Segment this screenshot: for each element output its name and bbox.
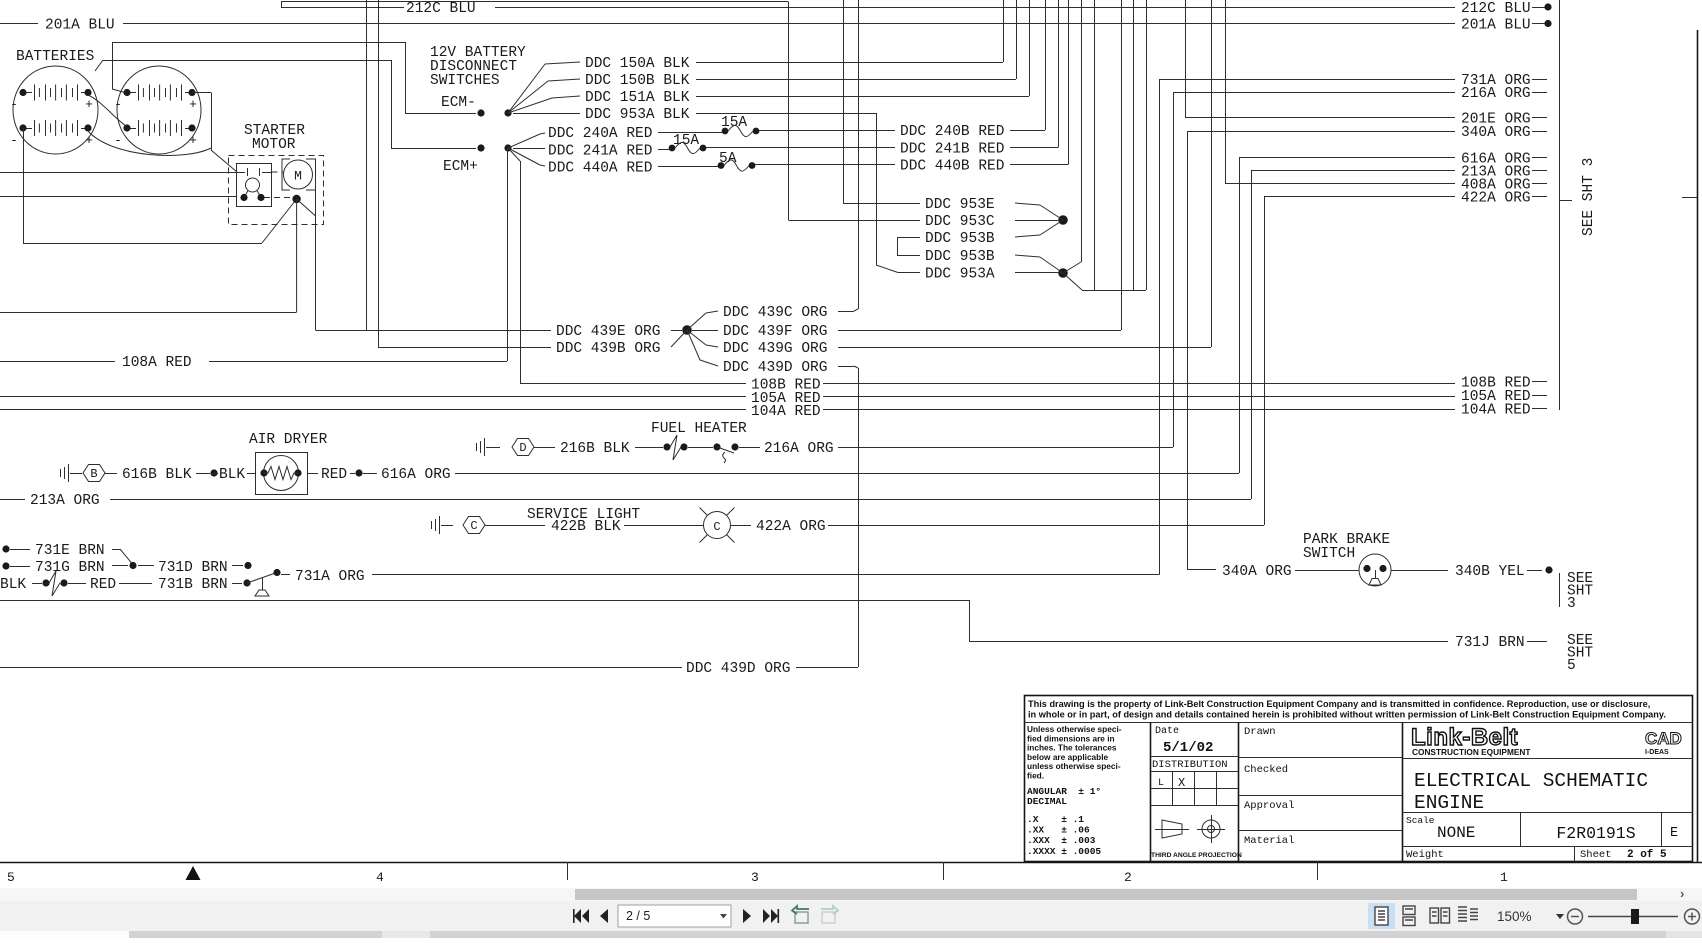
title block weight row — [1402, 846, 1693, 848]
wire 216B to breaker — [635, 447, 663, 449]
wire 422A feed — [1264, 196, 1440, 198]
wire DDC 439D ORG bottom run — [0, 667, 682, 669]
wire 731A feed — [1159, 79, 1440, 81]
wire 201A BLU run — [0, 23, 38, 25]
svg-text:BLK: BLK — [219, 467, 245, 483]
air dryer heater element zigzag — [264, 467, 298, 480]
solenoid dashed link to motor — [272, 171, 285, 173]
svg-text:RED: RED — [90, 577, 116, 593]
svg-text:X: X — [1178, 776, 1185, 790]
svg-text:Weight: Weight — [1406, 849, 1444, 861]
svg-text:+: + — [85, 97, 93, 112]
svg-text:DDC 953A BLK: DDC 953A BLK — [585, 107, 690, 123]
wire DDC 439C up bus x858 — [838, 311, 854, 313]
label 616A ORG right — [1440, 157, 1455, 159]
svg-text:213A ORG: 213A ORG — [30, 493, 100, 509]
node ECM+ junction dots — [477, 144, 484, 151]
label 422A ORG right — [1440, 196, 1455, 198]
svg-text:ECM-: ECM- — [441, 95, 476, 111]
label 212C BLU right with terminal dot — [1532, 7, 1545, 9]
svg-text:616B BLK: 616B BLK — [122, 467, 192, 483]
node 731 junction dot — [129, 562, 136, 569]
svg-text:150%: 150% — [1497, 909, 1532, 924]
wire BLK to air dryer — [247, 473, 256, 475]
wire DDC 150B BLK run — [696, 79, 1016, 81]
wire ECM+ mid to DDC 241A — [513, 148, 545, 150]
wire 731B stub — [232, 583, 242, 585]
svg-text:201A BLU: 201A BLU — [1461, 18, 1531, 34]
wire junction2 lower branch — [1063, 273, 1082, 290]
title block disclaimer box — [1024, 722, 1693, 724]
svg-text:4: 4 — [376, 870, 384, 885]
title block title text — [1402, 758, 1693, 760]
connector hexagon C — [463, 517, 485, 534]
wire 731D stub with dot — [232, 565, 243, 567]
wire 616A ORG run right — [363, 473, 377, 475]
wire 731J BRN run — [0, 600, 969, 602]
battery B2 cell bottom — [127, 128, 136, 130]
svg-text:731D BRN: 731D BRN — [158, 560, 228, 576]
wire 731A ORG long run — [372, 574, 1160, 576]
label 731A ORG right — [1440, 79, 1455, 81]
wire 616B to splice — [196, 473, 210, 475]
svg-text:422A ORG: 422A ORG — [756, 519, 826, 535]
svg-text:340A ORG: 340A ORG — [1461, 125, 1531, 141]
label 201A BLU right with terminal dot — [1532, 23, 1545, 25]
motor bracket left — [282, 159, 290, 190]
svg-text:.XX ± .06: .XX ± .06 — [1027, 825, 1090, 836]
wire ECM+ down to 108B RED — [508, 148, 520, 161]
wire run y312 to left edge — [0, 312, 297, 314]
wire switch to 216A — [739, 447, 760, 449]
zone tick marks — [567, 862, 569, 880]
svg-text:ENGINE: ENGINE — [1414, 792, 1484, 814]
svg-text:.XXXX ± .0005: .XXXX ± .0005 — [1027, 846, 1101, 857]
svg-text:5/1/02: 5/1/02 — [1163, 740, 1213, 756]
svg-text:731B BRN: 731B BRN — [158, 577, 228, 593]
svg-text:422A ORG: 422A ORG — [1461, 191, 1531, 207]
wire ECM+ feed — [391, 60, 393, 148]
wire junction2 up bus x1081 — [1063, 262, 1081, 273]
breaker element fuel heater — [670, 435, 681, 460]
svg-text:340A ORG: 340A ORG — [1222, 564, 1292, 580]
svg-text:2 of 5: 2 of 5 — [1627, 849, 1667, 861]
motor terminal dot — [292, 195, 300, 203]
svg-text:DDC 439B ORG: DDC 439B ORG — [556, 341, 660, 357]
wire 340A feed bus — [1187, 131, 1440, 133]
wire 731G stub — [10, 566, 30, 568]
svg-text:E: E — [1670, 826, 1678, 841]
wire 213A ORG run — [0, 499, 25, 501]
solenoid contact gap — [236, 172, 245, 174]
label 201E ORG right — [1440, 117, 1455, 119]
third angle projection symbol — [1162, 820, 1182, 838]
svg-text:DDC 439E ORG: DDC 439E ORG — [556, 324, 660, 340]
wire 616A ORG bus up — [1239, 158, 1241, 473]
svg-text:212C BLU: 212C BLU — [406, 1, 476, 17]
wire 731A ORG bus up — [1159, 79, 1161, 575]
svg-text:-: - — [10, 97, 18, 112]
title block outer box — [1025, 696, 1693, 862]
wire DDC 151A BLK run — [696, 96, 1029, 98]
wire 104A RED full run — [0, 409, 746, 411]
wire 201E feed bus — [1185, 0, 1187, 118]
svg-text:731E BRN: 731E BRN — [35, 543, 105, 559]
border bottom edge — [0, 862, 1702, 864]
wire 731G to junction — [112, 565, 128, 567]
wire DDC 953A BLK run to DDC 953A — [696, 113, 876, 115]
wire battery negative loop to starter motor — [23, 128, 25, 243]
wire solenoid feeds from left edge — [0, 172, 236, 174]
wire motor terminal down-left — [296, 199, 298, 312]
svg-text:5: 5 — [7, 870, 15, 885]
svg-text:I-DEAS: I-DEAS — [1645, 749, 1669, 756]
svg-text:DDC 953A: DDC 953A — [925, 267, 995, 283]
svg-text:2 / 5: 2 / 5 — [626, 909, 650, 923]
svg-text:DDC 241A RED: DDC 241A RED — [548, 144, 652, 160]
wire battery feed to ECM- run — [112, 42, 405, 44]
wire ECM- feed — [405, 42, 407, 113]
svg-text:DDC 241B RED: DDC 241B RED — [900, 142, 1004, 158]
svg-text:.X ± .1: .X ± .1 — [1027, 814, 1084, 825]
svg-text:DDC 439F ORG: DDC 439F ORG — [723, 324, 827, 340]
wire 731E diagonal — [112, 549, 120, 551]
svg-text:DISTRIBUTION: DISTRIBUTION — [1152, 759, 1228, 771]
node 731G terminal dot — [2, 562, 9, 569]
wire battery bottom loop to junction — [88, 131, 211, 155]
battery bank 1 enclosure ellipse — [13, 66, 98, 154]
wire DDC 150A BLK run — [696, 62, 1003, 64]
svg-text:3: 3 — [751, 870, 759, 885]
svg-text:616A ORG: 616A ORG — [381, 467, 451, 483]
title block scale row — [1402, 812, 1693, 814]
switch fuel heater — [717, 447, 734, 453]
svg-text:THIRD ANGLE PROJECTION: THIRD ANGLE PROJECTION — [1151, 852, 1242, 859]
svg-text:731A ORG: 731A ORG — [295, 569, 365, 585]
svg-text:DDC 953E: DDC 953E — [925, 197, 995, 213]
svg-text:Drawn: Drawn — [1244, 726, 1276, 738]
border tick right edge — [1682, 197, 1697, 199]
border sheet-3 bracket line — [1559, 0, 1561, 410]
wire 422A ORG bus up — [1264, 196, 1266, 525]
svg-text:731G BRN: 731G BRN — [35, 560, 105, 576]
wire ECM- fan to DDC 150B — [508, 81, 548, 113]
wire ECM+ fan to DDC 440A — [508, 148, 540, 165]
svg-text:-: - — [114, 97, 122, 112]
svg-text:in whole or in part, of design: in whole or in part, of design and detai… — [1028, 710, 1666, 720]
svg-text:ECM+: ECM+ — [443, 159, 478, 175]
wire bus x378 from top to DDC 439B — [378, 0, 380, 347]
svg-text:5: 5 — [1567, 658, 1576, 674]
svg-text:DDC 439D ORG: DDC 439D ORG — [686, 661, 790, 677]
wire 408A feed bus — [1225, 0, 1227, 184]
switch 731 park brake lamp switch — [247, 574, 274, 584]
motor bracket right — [306, 159, 316, 190]
battery B2 cell top — [127, 92, 136, 94]
svg-text:MOTOR: MOTOR — [252, 137, 296, 153]
wire bus x843 from top to DDC 953E — [843, 0, 845, 203]
svg-text:340B YEL: 340B YEL — [1455, 564, 1525, 580]
connector hexagon D — [512, 439, 534, 456]
breaker element 731 row — [49, 571, 60, 596]
svg-text:DDC 953B: DDC 953B — [925, 231, 995, 247]
lamp service light — [704, 512, 731, 539]
wire ECM- to DDC 953A BLK — [513, 113, 580, 115]
wire junction2 fan bus x1094 — [1094, 0, 1096, 290]
wire breaker to switch — [688, 447, 713, 449]
label 408A ORG right — [1440, 183, 1455, 185]
wire 340A to switch — [1295, 570, 1359, 572]
wire BLK stub — [32, 583, 42, 585]
label 340A ORG right — [1440, 131, 1455, 133]
wire 731E stub — [10, 549, 30, 551]
svg-text:AIR DRYER: AIR DRYER — [249, 432, 328, 448]
svg-text:This drawing is the property o: This drawing is the property of Link-Bel… — [1028, 699, 1650, 709]
wire bus x1146 — [1146, 0, 1148, 290]
wire 213A feed — [1251, 170, 1440, 172]
svg-text:DDC 240B RED: DDC 240B RED — [900, 124, 1004, 140]
svg-text:216B BLK: 216B BLK — [560, 441, 630, 457]
svg-text:3: 3 — [1567, 596, 1576, 612]
svg-text:DDC 440A RED: DDC 440A RED — [548, 161, 652, 177]
wire junction to 731D — [138, 565, 154, 567]
wire battery B2 to starter — [192, 92, 211, 94]
node ECM- junction dots — [477, 109, 484, 116]
starter motor dashed enclosure — [229, 156, 324, 225]
svg-text:-: - — [10, 133, 18, 148]
svg-text:212C BLU: 212C BLU — [1461, 1, 1531, 17]
svg-text:BLK: BLK — [0, 577, 26, 593]
connector hexagon B — [83, 465, 105, 482]
wire ECM+ down to 108A RED — [507, 148, 509, 361]
svg-text:C: C — [713, 520, 720, 534]
wire DDC 241B RED run — [706, 147, 895, 149]
svg-text:DDC 439D ORG: DDC 439D ORG — [723, 360, 827, 376]
svg-text:216A ORG: 216A ORG — [764, 441, 834, 457]
svg-text:DDC 953B: DDC 953B — [925, 249, 995, 265]
svg-text:L: L — [1158, 778, 1164, 789]
ground symbol fuel heater — [476, 443, 478, 451]
svg-text:SWITCH: SWITCH — [1303, 546, 1355, 562]
wire breaker to RED — [68, 583, 86, 585]
wire 212C BLU feed from top edge — [281, 1, 788, 3]
svg-text:SEE SHT 3: SEE SHT 3 — [1581, 158, 1597, 236]
wire bus x788 from top to DDC 953C — [788, 2, 790, 221]
svg-text:C: C — [470, 519, 477, 533]
node junction DDC 953 E/C/B — [1058, 215, 1068, 225]
wire lamp to 422A — [731, 525, 751, 527]
svg-text:M: M — [294, 169, 302, 184]
wire 340B terminal — [1527, 570, 1542, 572]
wire fan to DDC 439G — [687, 330, 706, 345]
svg-text:fied.: fied. — [1027, 771, 1044, 781]
svg-text:DDC 440B RED: DDC 440B RED — [900, 159, 1004, 175]
wire ECM- fan to DDC 150A — [508, 64, 545, 113]
svg-text:104A RED: 104A RED — [751, 404, 821, 420]
wire motor terminal to DDC 439E run — [297, 199, 316, 216]
ground symbol service light — [431, 521, 433, 529]
wire DDC 439F run right — [838, 330, 1121, 332]
wire 216A ORG run right — [838, 447, 1173, 449]
wire 216A feed — [1173, 92, 1440, 94]
svg-text:422B BLK: 422B BLK — [551, 519, 621, 535]
wire DDC 439D down bus x858 — [838, 366, 854, 368]
wire 340A to park brake — [1187, 569, 1216, 571]
svg-text:Checked: Checked — [1244, 764, 1288, 776]
svg-text:DDC 240A RED: DDC 240A RED — [548, 126, 652, 142]
ground symbol air dryer — [60, 469, 62, 477]
svg-text:Scale: Scale — [1406, 815, 1435, 826]
wire fan to DDC 439C — [687, 313, 706, 330]
svg-text:201A BLU: 201A BLU — [45, 18, 115, 34]
svg-text:DDC 150B BLK: DDC 150B BLK — [585, 73, 690, 89]
node junction DDC 439 fan — [682, 325, 692, 335]
svg-text:-: - — [114, 133, 122, 148]
border right edge — [1697, 30, 1699, 862]
svg-text:BATTERIES: BATTERIES — [16, 49, 94, 65]
wire fan to DDC 439D — [687, 330, 700, 360]
battery B1 cell top — [23, 92, 32, 94]
wire fan to DDC 439F — [692, 330, 718, 332]
wire battery feed to ECM+ run — [103, 60, 391, 62]
wire 105A RED full run — [0, 396, 746, 398]
air dryer heater circle — [264, 456, 299, 491]
air dryer heater box — [256, 453, 308, 495]
svg-text:Date: Date — [1155, 726, 1179, 737]
wire DDC 439D bottom stub — [796, 667, 858, 669]
svg-text:B: B — [90, 467, 97, 481]
wire DDC 440B RED run — [755, 164, 895, 166]
wire 213A ORG bus up — [1251, 171, 1253, 499]
solenoid contact legs and dots — [244, 191, 248, 198]
zone revision triangle — [186, 866, 201, 880]
wire switch to 731A — [281, 574, 290, 576]
svg-text:.XXX ± .003: .XXX ± .003 — [1027, 835, 1096, 846]
wire bus x1133 — [1133, 0, 1135, 290]
svg-text:1: 1 — [1500, 870, 1508, 885]
park brake switch circle — [1359, 554, 1391, 586]
svg-text:D: D — [519, 441, 526, 455]
svg-text:2: 2 — [1124, 870, 1132, 885]
wire DDC 240B RED run — [759, 130, 895, 132]
starter solenoid box — [237, 164, 272, 207]
svg-text:CAD: CAD — [1645, 729, 1682, 748]
wire 108B RED run — [520, 383, 746, 385]
wire run y330 to DDC 439E — [316, 330, 552, 332]
svg-text:DDC 953C: DDC 953C — [925, 214, 995, 230]
svg-text:Material: Material — [1244, 835, 1294, 847]
svg-text:+: + — [189, 97, 197, 112]
wire ECM- fan to DDC 151A — [508, 98, 552, 113]
svg-text:SWITCHES: SWITCHES — [430, 73, 500, 89]
bracket joining DDC 953B pair — [897, 237, 920, 239]
wire 616A feed — [1239, 157, 1440, 159]
svg-text:104A RED: 104A RED — [1461, 403, 1531, 419]
starter motor M circle — [284, 160, 313, 189]
label 216A ORG right — [1440, 92, 1455, 94]
label 213A ORG right — [1440, 170, 1455, 172]
title block column dividers — [1150, 722, 1152, 862]
svg-text:ELECTRICAL SCHEMATIC: ELECTRICAL SCHEMATIC — [1414, 770, 1648, 792]
wire 212C BLU run — [281, 7, 404, 9]
wire 422A ORG run right — [828, 525, 1264, 527]
wire ECM+ fan to DDC 240A — [508, 134, 540, 148]
battery bank 2 enclosure ellipse — [117, 66, 201, 154]
wire 731J dash — [1527, 641, 1547, 643]
battery B1 cell bottom — [23, 128, 32, 130]
node 731E terminal dot — [2, 545, 9, 552]
wire bus x366 from top — [366, 0, 368, 330]
svg-text:DDC 439G ORG: DDC 439G ORG — [723, 341, 827, 357]
svg-text:DECIMAL: DECIMAL — [1027, 796, 1067, 807]
svg-text:CONSTRUCTION EQUIPMENT: CONSTRUCTION EQUIPMENT — [1412, 747, 1530, 757]
svg-text:731J BRN: 731J BRN — [1455, 635, 1525, 651]
wire 216A ORG bus up — [1173, 92, 1175, 447]
svg-text:+: + — [189, 133, 197, 148]
svg-text:F2R0191S: F2R0191S — [1556, 824, 1635, 843]
node junction DDC 953 B/A — [1058, 268, 1068, 278]
svg-text:DDC 150A BLK: DDC 150A BLK — [585, 56, 690, 72]
svg-text:Approval: Approval — [1244, 800, 1294, 812]
svg-text:FUEL HEATER: FUEL HEATER — [651, 421, 747, 437]
svg-text:RED: RED — [321, 467, 347, 483]
wire battery interconnect curve — [88, 95, 126, 126]
wire RED to 731B — [119, 583, 152, 585]
bracket SEE SHT 3 park brake — [1559, 573, 1561, 607]
svg-text:DDC 151A BLK: DDC 151A BLK — [585, 90, 690, 106]
svg-text:DDC 439C ORG: DDC 439C ORG — [723, 305, 827, 321]
svg-text:108A RED: 108A RED — [122, 355, 192, 371]
wire 108A RED run — [0, 361, 115, 363]
svg-text:NONE: NONE — [1437, 824, 1475, 842]
wire 422B to lamp — [624, 525, 703, 527]
svg-text:216A ORG: 216A ORG — [1461, 86, 1531, 102]
title block distribution grid — [1150, 771, 1238, 773]
wire DDC 439G run right — [838, 347, 1211, 349]
svg-text:Sheet: Sheet — [1580, 849, 1612, 861]
solenoid coil circle — [246, 178, 260, 192]
wire switch to 340B — [1391, 570, 1448, 572]
